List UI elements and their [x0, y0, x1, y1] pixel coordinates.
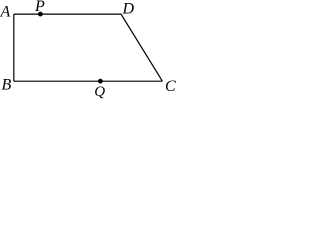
- wire side AD (top edge): [14, 13, 121, 15]
- wire side DC (slant edge): [121, 14, 162, 81]
- node Q dot: [98, 79, 103, 84]
- svg-text:A: A: [0, 4, 11, 21]
- svg-text:D: D: [122, 1, 135, 18]
- node P dot: [38, 12, 43, 17]
- svg-text:P: P: [34, 0, 45, 15]
- wire side AB (left edge): [13, 14, 15, 81]
- svg-text:Q: Q: [94, 84, 105, 100]
- wire side BC (bottom edge): [14, 80, 163, 82]
- svg-text:C: C: [165, 78, 176, 95]
- svg-text:B: B: [2, 77, 12, 94]
